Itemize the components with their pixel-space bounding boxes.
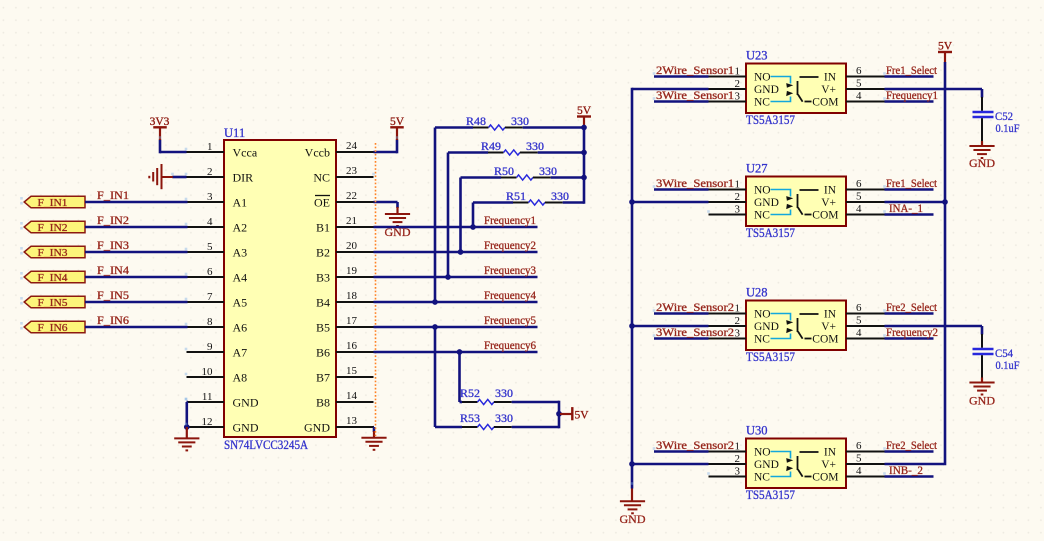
U23 pin 1 stub	[709, 76, 747, 78]
svg-text:SN74LVCC3245A: SN74LVCC3245A	[224, 438, 308, 452]
svg-text:R53: R53	[460, 411, 480, 425]
svg-text:14: 14	[346, 390, 358, 402]
svg-text:330: 330	[511, 114, 529, 128]
svg-text:U23: U23	[746, 49, 768, 63]
svg-text:Frequency5: Frequency5	[484, 315, 536, 327]
svg-text:COM: COM	[812, 97, 838, 109]
svg-text:F_IN5: F_IN5	[38, 297, 69, 309]
svg-text:6: 6	[856, 440, 862, 452]
svg-text:NC: NC	[313, 170, 330, 184]
svg-text:3Wire_Sensor2: 3Wire_Sensor2	[656, 440, 734, 452]
svg-text:3: 3	[735, 203, 741, 215]
port F_IN3	[24, 246, 85, 257]
ground symbol C54	[981, 378, 983, 383]
wire Vccb to 5V	[374, 151, 398, 154]
svg-text:F_IN4: F_IN4	[38, 272, 69, 284]
resistor R48	[435, 125, 523, 130]
unconnected pin markers	[20, 72, 886, 485]
svg-text:R48: R48	[466, 114, 486, 128]
U28 pin 1 stub	[709, 313, 747, 315]
wire R50 pull vertical	[459, 178, 462, 253]
junction R49/5V	[581, 150, 587, 156]
wire net 3Wire_Sensor2 (U30)	[654, 450, 709, 453]
wire net Frequency1 (U23)	[885, 100, 934, 103]
svg-text:COM: COM	[812, 472, 838, 484]
svg-text:R52: R52	[460, 386, 480, 400]
svg-text:3: 3	[207, 191, 213, 203]
wire net Fre2_Select (U28)	[885, 312, 934, 315]
resistor R53	[435, 424, 512, 429]
wire net 3Wire_Sensor1 (U27)	[654, 188, 709, 191]
U27 switch symbol	[771, 190, 819, 215]
svg-text:NC: NC	[754, 472, 770, 484]
U11 pin 5 stub	[187, 251, 225, 253]
svg-text:1: 1	[735, 302, 741, 314]
wire net 3Wire_Sensor2 (U28)	[654, 337, 709, 340]
svg-text:TS5A3157: TS5A3157	[746, 226, 795, 240]
svg-text:R50: R50	[494, 164, 514, 178]
svg-text:F_IN3: F_IN3	[38, 247, 69, 259]
U11 pin 1 stub	[187, 151, 225, 153]
ground symbol bottom	[620, 500, 645, 502]
svg-text:5: 5	[856, 315, 862, 327]
U11 pin 16 stub	[336, 351, 374, 353]
wire R52-R53 right vertical	[558, 401, 561, 429]
port F_IN2	[24, 221, 85, 233]
junction Frequency1	[470, 224, 476, 230]
svg-text:INB-_2: INB-_2	[889, 465, 923, 477]
wire R52 right	[512, 401, 559, 404]
ground symbol at OE	[396, 207, 398, 215]
junction U27 pin2	[629, 199, 635, 205]
svg-text:Frequency2: Frequency2	[484, 240, 536, 252]
wire R49 pull vertical	[447, 153, 450, 278]
svg-text:A8: A8	[233, 370, 248, 384]
svg-text:0.1uF: 0.1uF	[996, 121, 1020, 135]
junction R48/5V	[581, 125, 587, 131]
svg-text:COM: COM	[812, 334, 838, 346]
svg-text:V+: V+	[821, 197, 836, 209]
svg-text:15: 15	[346, 365, 358, 377]
ground symbol right of U11	[373, 431, 375, 438]
wire net F_IN4	[85, 276, 188, 279]
svg-text:1: 1	[735, 65, 741, 77]
wire net 3Wire_Sensor1 (U23)	[654, 100, 709, 103]
wire GND pins 11-12	[187, 401, 188, 404]
svg-text:A3: A3	[233, 245, 248, 259]
wire GND pin 13	[372, 426, 375, 429]
U11 pin 24 stub	[336, 151, 374, 153]
wire net Frequency2	[374, 251, 538, 254]
svg-text:16: 16	[346, 340, 358, 352]
wire net 2Wire_Sensor1 (U23)	[654, 75, 709, 78]
svg-text:23: 23	[346, 165, 358, 177]
svg-text:TS5A3157: TS5A3157	[746, 113, 795, 127]
wire C52 top	[981, 89, 984, 98]
svg-text:1: 1	[735, 178, 741, 190]
svg-text:TS5A3157: TS5A3157	[746, 488, 795, 502]
power symbol 3V3	[159, 127, 161, 140]
svg-text:5V: 5V	[390, 116, 405, 128]
analog switch U28 body TS5A3157	[746, 301, 846, 351]
resistor R52	[460, 399, 512, 404]
wire U23 V+ to 5V rail and C52	[885, 88, 983, 91]
wire 5V rail above resistors	[583, 126, 586, 204]
svg-text:DIR: DIR	[233, 170, 254, 184]
wire net INB-_2	[885, 475, 934, 478]
svg-text:F_IN2: F_IN2	[38, 222, 68, 234]
svg-text:6: 6	[856, 178, 862, 190]
svg-text:4: 4	[856, 90, 862, 102]
U11 pin 6 stub	[187, 276, 225, 278]
svg-text:1: 1	[735, 440, 741, 452]
svg-text:B6: B6	[316, 345, 330, 359]
svg-text:A1: A1	[233, 195, 248, 209]
wire 5V rail right	[944, 62, 947, 465]
svg-text:11: 11	[202, 391, 213, 403]
junction U30 pin2	[629, 461, 635, 467]
svg-text:A5: A5	[233, 295, 248, 309]
U27 pin 4 stub	[846, 214, 885, 216]
U30 pin 3 stub	[709, 476, 747, 478]
svg-text:B4: B4	[316, 295, 330, 309]
svg-text:U27: U27	[746, 162, 768, 176]
wire R51 pull vertical	[472, 203, 475, 228]
svg-text:V+: V+	[821, 321, 836, 333]
svg-text:Fre2_Select: Fre2_Select	[886, 440, 938, 452]
wire U30 pin2 to GND rail	[632, 463, 709, 466]
U23 pin 5 stub	[846, 88, 885, 90]
U11 pin 20 stub	[336, 251, 374, 253]
svg-text:12: 12	[202, 416, 213, 428]
junction Frequency2	[458, 249, 464, 255]
wire OE to ground	[374, 201, 398, 204]
svg-text:Frequency1: Frequency1	[886, 90, 938, 102]
capacitor C54	[973, 334, 994, 378]
wire DIR to ground	[172, 176, 186, 179]
svg-text:6: 6	[856, 302, 862, 314]
svg-text:U28: U28	[746, 286, 768, 300]
wire net INA-_1	[885, 213, 934, 216]
svg-text:24: 24	[346, 140, 358, 152]
svg-text:F_IN4: F_IN4	[97, 265, 129, 277]
svg-text:GND: GND	[233, 395, 259, 409]
U11 pin 23 stub	[336, 176, 374, 178]
resistor R51	[473, 200, 563, 205]
U30 pin 4 stub	[846, 476, 885, 478]
svg-text:V+: V+	[821, 459, 836, 471]
svg-text:5V: 5V	[938, 41, 953, 53]
svg-text:F_IN5: F_IN5	[97, 290, 129, 302]
ground symbol C52	[981, 141, 983, 146]
wire R50 right to 5V rail	[551, 176, 584, 179]
svg-text:3Wire_Sensor1: 3Wire_Sensor1	[656, 90, 734, 102]
svg-text:A7: A7	[233, 345, 248, 359]
U11 pin 21 stub	[336, 226, 374, 228]
wire net Frequency1	[374, 226, 538, 229]
svg-text:Vcca: Vcca	[233, 145, 258, 159]
wire net Frequency5	[374, 326, 538, 329]
svg-text:5: 5	[856, 78, 862, 90]
wire net Fre2_Select (U30)	[885, 450, 934, 453]
U11 pin 14 stub	[336, 401, 374, 403]
capacitor C52	[973, 97, 994, 142]
svg-text:6: 6	[856, 65, 862, 77]
svg-text:NC: NC	[754, 97, 770, 109]
wire U28 pin2 to GND rail	[632, 325, 709, 328]
power symbol 5V (rotated, R52/R53)	[560, 413, 572, 415]
port F_IN5	[24, 296, 85, 308]
svg-text:NC: NC	[754, 210, 770, 222]
svg-text:7: 7	[207, 291, 213, 303]
wire net Fre1_Select (U23)	[885, 75, 934, 78]
wire net Frequency6	[374, 351, 538, 354]
svg-text:19: 19	[346, 265, 358, 277]
svg-text:Frequency2: Frequency2	[886, 327, 938, 339]
svg-text:TS5A3157: TS5A3157	[746, 350, 795, 364]
svg-text:IN: IN	[824, 447, 837, 459]
svg-text:NO: NO	[754, 309, 771, 321]
svg-text:B1: B1	[316, 220, 330, 234]
svg-text:4: 4	[856, 203, 862, 215]
U23 pin 6 stub	[846, 76, 885, 78]
wire net F_IN5	[85, 301, 188, 304]
U27 pin 6 stub	[846, 189, 885, 191]
U30 pin 1 stub	[709, 451, 747, 453]
svg-text:GND: GND	[620, 512, 646, 526]
svg-text:5: 5	[856, 453, 862, 465]
wire net Frequency2 (U28)	[885, 337, 934, 340]
svg-text:4: 4	[856, 465, 862, 477]
svg-text:B5: B5	[316, 320, 330, 334]
svg-text:13: 13	[346, 415, 358, 427]
svg-text:2: 2	[207, 166, 213, 178]
svg-text:IN: IN	[824, 185, 837, 197]
svg-text:GND: GND	[233, 420, 259, 434]
svg-text:A6: A6	[233, 320, 248, 334]
U23 pin 2 stub	[709, 88, 747, 90]
port F_IN1	[24, 196, 85, 208]
svg-text:NO: NO	[754, 185, 771, 197]
port F_IN6	[24, 321, 85, 333]
wire Frequency6 down to R52	[458, 352, 461, 402]
svg-text:17: 17	[346, 315, 358, 327]
analog switch U23 body TS5A3157	[746, 64, 846, 114]
wire net Frequency3	[374, 276, 538, 279]
svg-text:18: 18	[346, 290, 358, 302]
junction Frequency6	[457, 349, 463, 355]
resistor R50	[461, 175, 551, 180]
power symbol 5V (resistors)	[583, 117, 585, 127]
svg-text:10: 10	[202, 366, 214, 378]
svg-text:2Wire_Sensor2: 2Wire_Sensor2	[656, 302, 734, 314]
U11 pin 3 stub	[187, 201, 225, 203]
svg-text:GND: GND	[754, 321, 779, 333]
wire net Fre1_Select (U27)	[885, 188, 934, 191]
svg-text:COM: COM	[812, 210, 838, 222]
svg-text:5: 5	[856, 191, 862, 203]
svg-text:Frequency1: Frequency1	[484, 215, 536, 227]
svg-text:F_IN3: F_IN3	[97, 240, 129, 252]
U28 pin 2 stub	[709, 325, 747, 327]
analog switch U27 body TS5A3157	[746, 177, 846, 227]
wire R53 right	[512, 426, 559, 429]
wire net F_IN2	[85, 226, 188, 229]
wire R48 right to 5V rail	[523, 126, 584, 129]
svg-text:4: 4	[856, 327, 862, 339]
svg-text:3Wire_Sensor1: 3Wire_Sensor1	[656, 178, 734, 190]
U11 pin 22 stub	[336, 201, 374, 203]
U23 switch symbol	[771, 77, 819, 102]
junction Frequency4	[432, 299, 438, 305]
svg-text:5V: 5V	[577, 105, 592, 117]
U11 pin 12 stub	[187, 426, 225, 428]
wire net F_IN3	[85, 251, 188, 254]
svg-text:2: 2	[735, 78, 741, 90]
svg-text:F_IN6: F_IN6	[38, 322, 69, 334]
svg-text:4: 4	[207, 216, 213, 228]
svg-text:GND: GND	[754, 459, 779, 471]
U28 pin 4 stub	[846, 338, 885, 340]
junction U27 V+/5V rail	[942, 199, 948, 205]
svg-text:GND: GND	[754, 197, 779, 209]
junction R50/5V	[581, 175, 587, 181]
svg-text:3: 3	[735, 327, 741, 339]
svg-text:B8: B8	[316, 395, 330, 409]
U11 pin 19 stub	[336, 276, 374, 278]
U11 pin 18 stub	[336, 301, 374, 303]
port F_IN4	[24, 271, 85, 283]
svg-text:330: 330	[539, 164, 557, 178]
svg-text:Fre1_Select: Fre1_Select	[886, 178, 938, 190]
svg-text:B2: B2	[316, 245, 330, 259]
U11 pin 9 stub	[187, 351, 225, 353]
svg-text:9: 9	[207, 341, 213, 353]
wire net F_IN6	[85, 326, 188, 329]
svg-text:2: 2	[735, 453, 741, 465]
wire C54 top	[981, 326, 984, 335]
svg-text:6: 6	[207, 266, 213, 278]
U11 pin 2 stub	[187, 176, 225, 178]
svg-text:F_IN2: F_IN2	[97, 215, 129, 227]
U11 pin 11 stub	[187, 401, 225, 403]
ground symbol at DIR (rotated)	[162, 176, 173, 178]
svg-text:21: 21	[346, 215, 357, 227]
svg-text:IN: IN	[824, 72, 837, 84]
svg-text:F_IN6: F_IN6	[97, 315, 129, 327]
wire U28 V+ to 5V rail and C54	[885, 325, 983, 328]
U28 pin 6 stub	[846, 313, 885, 315]
svg-text:GND: GND	[969, 394, 995, 408]
svg-text:5V: 5V	[575, 409, 590, 421]
U27 pin 5 stub	[846, 201, 885, 203]
svg-text:2Wire_Sensor1: 2Wire_Sensor1	[656, 65, 734, 77]
wire Vcca to 3V3	[160, 151, 187, 154]
svg-text:3: 3	[735, 90, 741, 102]
orange dotted boundary line	[375, 143, 377, 436]
svg-text:5: 5	[207, 241, 213, 253]
wire R51 right to 5V rail	[563, 201, 584, 204]
U23 pin 3 stub	[709, 101, 747, 103]
U30 pin 2 stub	[709, 463, 747, 465]
wire rail to ground	[631, 489, 633, 502]
svg-text:NO: NO	[754, 72, 771, 84]
wire net F_IN1	[85, 201, 188, 204]
svg-text:2: 2	[735, 315, 741, 327]
wire R49 right to 5V rail	[538, 151, 584, 154]
wire U27 V+ to 5V rail	[885, 201, 946, 204]
U11 pin 7 stub	[187, 301, 225, 303]
svg-text:Fre1_Select: Fre1_Select	[886, 65, 938, 77]
wire net Frequency4	[374, 301, 538, 304]
ground symbol left of U11	[186, 427, 188, 438]
U28 switch symbol	[771, 314, 819, 339]
U28 pin 5 stub	[846, 325, 885, 327]
power symbol 5V (U11)	[396, 127, 398, 140]
U27 pin 3 stub	[709, 214, 747, 216]
svg-text:V+: V+	[821, 84, 836, 96]
U11 pin 17 stub	[336, 326, 374, 328]
junction Frequency3	[445, 274, 451, 280]
svg-text:330: 330	[495, 411, 513, 425]
U11 pin 15 stub	[336, 376, 374, 378]
svg-text:3Wire_Sensor2: 3Wire_Sensor2	[656, 327, 734, 339]
svg-text:Frequency3: Frequency3	[484, 265, 536, 277]
U27 pin 1 stub	[709, 189, 747, 191]
wire U30 V+ to 5V rail	[885, 463, 945, 466]
svg-text:B7: B7	[316, 370, 330, 384]
wire net 2Wire_Sensor2 (U28)	[654, 312, 709, 315]
svg-text:U11: U11	[224, 126, 245, 140]
U11 pin 13 stub	[336, 426, 374, 428]
U30 pin 6 stub	[846, 451, 885, 453]
svg-text:2: 2	[735, 191, 741, 203]
wire R48 pull vertical	[434, 128, 437, 303]
svg-text:A4: A4	[233, 270, 248, 284]
svg-text:Vccb: Vccb	[305, 145, 330, 159]
svg-text:F_IN1: F_IN1	[97, 190, 129, 202]
svg-text:330: 330	[526, 139, 544, 153]
svg-text:NO: NO	[754, 447, 771, 459]
svg-text:NC: NC	[754, 334, 770, 346]
svg-text:IN: IN	[824, 309, 837, 321]
wire Frequency5 down to R53	[434, 327, 437, 427]
svg-text:8: 8	[207, 316, 213, 328]
resistor R49	[448, 150, 538, 155]
svg-text:Fre2_Select: Fre2_Select	[886, 302, 938, 314]
wire U27 pin2 to GND rail	[632, 201, 709, 204]
U11 pin 10 stub	[187, 376, 225, 378]
U11 pin 8 stub	[187, 326, 225, 328]
svg-text:22: 22	[346, 190, 357, 202]
svg-text:A2: A2	[233, 220, 248, 234]
svg-text:GND: GND	[754, 84, 779, 96]
svg-text:3: 3	[735, 465, 741, 477]
svg-text:Frequency6: Frequency6	[484, 340, 536, 352]
svg-text:F_IN1: F_IN1	[38, 197, 68, 209]
svg-text:GND: GND	[304, 420, 330, 434]
U30 pin 5 stub	[846, 463, 885, 465]
junction Frequency5	[432, 324, 438, 330]
svg-text:330: 330	[495, 386, 513, 400]
svg-text:3V3: 3V3	[150, 116, 170, 128]
analog switch U30 body TS5A3157	[746, 439, 846, 489]
svg-text:R51: R51	[506, 189, 526, 203]
junction pins 11-12	[184, 424, 190, 430]
svg-text:OE: OE	[314, 195, 330, 209]
svg-text:R49: R49	[481, 139, 501, 153]
svg-text:INA-_1: INA-_1	[889, 203, 923, 215]
